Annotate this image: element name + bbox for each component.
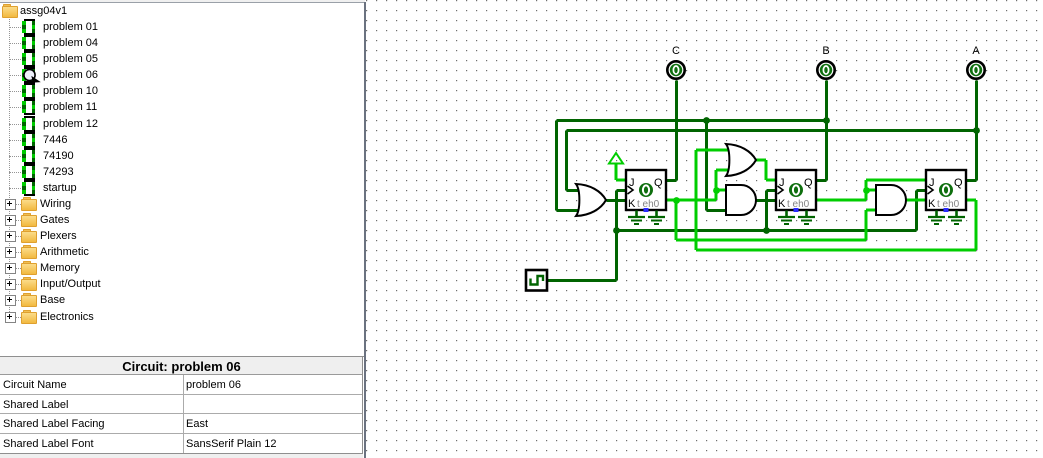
svg-text:K: K [628,198,636,210]
svg-text:A: A [972,45,980,57]
svg-text:K: K [928,198,936,210]
svg-text:Q: Q [804,177,813,189]
svg-text:B: B [822,45,829,57]
svg-text:Q: Q [954,177,963,189]
svg-text:C: C [672,45,680,57]
svg-text:Q: Q [654,177,663,189]
svg-text:K: K [778,198,786,210]
